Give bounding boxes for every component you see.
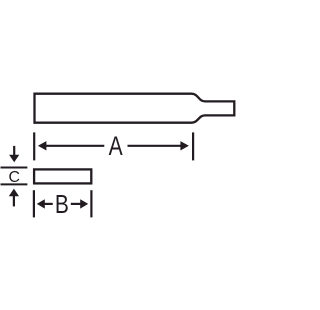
dimension A left extension tick: [33, 132, 35, 160]
dimension B left arrow: [37, 199, 53, 208]
dimension A left arrow: [38, 141, 104, 150]
svg-text:C: C: [8, 169, 19, 186]
dimension A right arrow: [128, 141, 189, 150]
dimension C lower extension line: [1, 183, 28, 185]
svg-text:A: A: [109, 132, 124, 162]
label C: [8, 169, 19, 186]
file blade side view outline with tang: [35, 94, 235, 123]
label B: [55, 191, 69, 220]
dimension C upper extension line: [1, 167, 28, 169]
dimension C down arrow: [9, 146, 19, 162]
label A: [109, 132, 124, 162]
dimension B right arrow: [71, 199, 88, 208]
dimension C up arrow: [9, 189, 19, 207]
dimension B right extension tick: [90, 190, 92, 217]
svg-text:B: B: [55, 191, 69, 220]
dimension B left extension tick: [33, 190, 35, 217]
dimension A right extension tick: [192, 132, 194, 160]
file cross-section rectangle: [34, 169, 91, 183]
